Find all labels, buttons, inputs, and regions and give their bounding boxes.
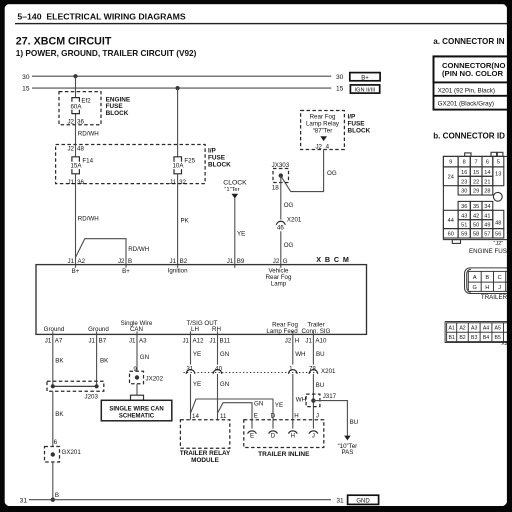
svg-text:A10: A10: [315, 337, 327, 344]
svg-text:J: J: [498, 285, 501, 291]
svg-text:ELECTRICAL WIRING DIAGRAMS: ELECTRICAL WIRING DIAGRAMS: [46, 12, 186, 22]
svg-text:J1: J1: [89, 337, 96, 344]
svg-text:TRAILER: TRAILER: [481, 294, 508, 301]
svg-text:22: 22: [473, 179, 479, 185]
splice JX303 box: [273, 169, 289, 183]
splice JX303 dot: [279, 173, 283, 177]
svg-text:16: 16: [461, 170, 467, 176]
svg-text:49: 49: [484, 222, 490, 228]
scan border right: [507, 0, 512, 512]
svg-text:D: D: [271, 413, 276, 420]
svg-text:BU: BU: [350, 419, 359, 426]
svg-text:B+: B+: [361, 75, 369, 81]
pin row 2: [458, 167, 470, 176]
svg-text:B+: B+: [122, 268, 130, 275]
svg-text:4: 4: [326, 143, 330, 150]
svg-text:B+: B+: [72, 268, 80, 275]
I/P fuse block box: [56, 145, 206, 184]
pigtail pin 1: [289, 370, 298, 374]
svg-text:GN: GN: [140, 354, 149, 361]
svg-text:“87”Ter: “87”Ter: [313, 127, 333, 134]
pin row 7: [458, 220, 470, 229]
strip pin labels: [449, 326, 501, 341]
svg-text:H: H: [291, 433, 295, 439]
svg-text:J2: J2: [273, 258, 280, 265]
svg-text:“1”Ter: “1”Ter: [224, 187, 239, 193]
T/SIG LH wire: [190, 334, 192, 364]
strip cell grid: [447, 323, 510, 342]
svg-text:A4: A4: [483, 326, 489, 332]
trailer sig wire: [312, 334, 314, 364]
wire JX303 down: [280, 176, 282, 220]
X201 connector strip: [445, 322, 510, 343]
svg-text:23: 23: [461, 179, 467, 185]
clock arrow: [232, 194, 239, 199]
svg-text:J2: J2: [285, 337, 292, 344]
svg-text:PAS: PAS: [341, 449, 353, 456]
svg-text:YE: YE: [237, 231, 245, 238]
svg-text:J1: J1: [170, 258, 177, 265]
svg-text:X201 (92 Pin, Black): X201 (92 Pin, Black): [438, 87, 495, 94]
svg-text:60: 60: [448, 232, 454, 238]
pigtail pin 31: [186, 370, 195, 374]
svg-text:J2: J2: [315, 143, 322, 150]
node on wire 31: [51, 498, 55, 502]
LH wire to module pin 14: [190, 374, 192, 420]
wire X201 to XBCM J2|G: [280, 231, 282, 264]
svg-text:H: H: [485, 285, 489, 291]
scan border top: [0, 0, 512, 4]
splice J203 dot B: [95, 384, 99, 388]
svg-text:Ground: Ground: [44, 326, 65, 333]
engine fuse block connector drawing: [443, 152, 509, 243]
svg-text:28: 28: [484, 189, 490, 195]
svg-text:J2: J2: [118, 258, 125, 265]
svg-text:B: B: [485, 275, 489, 281]
svg-text:8: 8: [463, 160, 466, 166]
svg-text:GX201: GX201: [62, 449, 82, 456]
splice J317 dot: [311, 398, 315, 402]
svg-text:OG: OG: [284, 202, 294, 209]
svg-text:6: 6: [54, 439, 58, 446]
svg-text:Ef2: Ef2: [81, 98, 91, 105]
svg-text:IGN II/III: IGN II/III: [355, 88, 376, 94]
svg-text:10A: 10A: [172, 163, 184, 170]
svg-text:Ground: Ground: [88, 326, 109, 333]
svg-text:RD/WH: RD/WH: [128, 246, 149, 253]
svg-text:B11: B11: [220, 337, 231, 344]
branch to trailer D: [191, 399, 274, 429]
svg-text:42: 42: [473, 213, 479, 219]
pin row 4: [458, 186, 470, 195]
socket J: [309, 431, 318, 434]
svg-text:35: 35: [473, 204, 479, 210]
IGN box: [350, 85, 379, 93]
svg-text:31: 31: [186, 365, 193, 372]
svg-text:A: A: [473, 275, 477, 281]
svg-text:BLOCK: BLOCK: [106, 110, 129, 117]
pin row 6: [458, 210, 470, 219]
pin row 8: [458, 229, 470, 238]
svg-text:Conn. SIG: Conn. SIG: [302, 328, 331, 335]
svg-text:31: 31: [336, 497, 344, 504]
svg-text:ENGINE FUSE: ENGINE FUSE: [469, 248, 511, 255]
svg-text:14: 14: [484, 170, 490, 176]
svg-text:J1: J1: [45, 337, 52, 344]
svg-text:BU: BU: [316, 351, 325, 358]
wire 15 to F25: [177, 88, 179, 157]
svg-text:RH: RH: [212, 326, 221, 333]
svg-text:F14: F14: [82, 157, 93, 164]
svg-text:5: 5: [497, 160, 500, 166]
ground wire to GX201: [52, 391, 54, 446]
svg-text:9: 9: [449, 160, 452, 166]
XBCM box: [36, 265, 367, 335]
svg-text:F25: F25: [184, 157, 195, 164]
svg-text:J1: J1: [305, 337, 312, 344]
svg-text:J1: J1: [209, 337, 216, 344]
relay arrow: [320, 136, 327, 141]
wire branch to J2|B: [76, 239, 127, 265]
svg-text:OG: OG: [284, 242, 294, 249]
cell 13: [493, 167, 504, 186]
svg-text:YE: YE: [275, 402, 283, 409]
svg-text:RD/WH: RD/WH: [78, 131, 99, 138]
trailer cell grid: [468, 271, 510, 291]
svg-text:X2: X2: [501, 341, 507, 347]
svg-text:G: G: [283, 258, 288, 265]
cell 60: [443, 229, 458, 238]
splice J203 dot A: [51, 384, 55, 388]
svg-text:XBCM: XBCM: [316, 255, 352, 264]
svg-text:J317: J317: [323, 393, 337, 400]
svg-text:A5: A5: [495, 326, 501, 332]
svg-text:SCHEMATIC: SCHEMATIC: [119, 414, 155, 420]
fuse F14: [72, 157, 80, 162]
header rule: [15, 23, 507, 24]
svg-text:J1: J1: [182, 337, 189, 344]
svg-text:LH: LH: [191, 326, 199, 333]
wire into F14: [75, 145, 77, 157]
svg-text:TRAILER INLINE: TRAILER INLINE: [258, 451, 310, 458]
strip shell: [445, 322, 510, 343]
scan border left: [0, 0, 5, 512]
svg-text:BLOCK: BLOCK: [208, 162, 231, 169]
pigtail pin 40: [213, 370, 222, 374]
wire from 30 to Ef2: [75, 76, 77, 97]
svg-text:Lamp Feed: Lamp Feed: [266, 328, 298, 335]
svg-text:G: G: [473, 285, 477, 291]
trailer pin letters: [473, 275, 502, 291]
splice JX202 dot: [135, 375, 139, 379]
svg-text:J2: J2: [67, 145, 74, 152]
svg-text:YE: YE: [193, 351, 201, 358]
splice J317 box: [306, 394, 320, 407]
svg-text:57: 57: [484, 232, 490, 238]
svg-text:A2: A2: [78, 258, 86, 265]
svg-text:48: 48: [77, 145, 84, 152]
svg-text:A12: A12: [193, 337, 205, 344]
socket H: [288, 431, 297, 434]
svg-text:43: 43: [461, 213, 467, 219]
svg-text:32: 32: [179, 179, 186, 186]
svg-text:29: 29: [473, 189, 479, 195]
svg-text:E: E: [250, 433, 254, 439]
svg-text:36: 36: [77, 119, 84, 126]
engine fuse block box: [59, 92, 101, 125]
svg-text:B3: B3: [471, 335, 477, 341]
cell 48: [493, 210, 504, 228]
svg-text:BU: BU: [316, 382, 325, 389]
svg-text:51: 51: [461, 222, 467, 228]
svg-text:WH: WH: [296, 396, 306, 403]
svg-text:13: 13: [495, 172, 501, 178]
svg-text:41: 41: [484, 213, 490, 219]
svg-text:J1: J1: [227, 258, 234, 265]
svg-text:OG: OG: [327, 170, 337, 177]
svg-text:GN: GN: [220, 381, 229, 388]
svg-text:RD/WH: RD/WH: [78, 216, 99, 223]
svg-text:50: 50: [473, 222, 479, 228]
mounting tab bottom: [452, 240, 460, 244]
branch to trailer E: [218, 403, 253, 429]
pigtail pin 78: [309, 370, 318, 374]
svg-text:E: E: [254, 413, 258, 420]
svg-text:JX303: JX303: [272, 162, 290, 169]
svg-text:Lamp: Lamp: [271, 281, 287, 288]
splice J203 bus: [53, 385, 97, 387]
mounting tab top: [465, 153, 471, 157]
svg-text:GX201 (Black/Gray): GX201 (Black/Gray): [438, 101, 494, 108]
svg-text:A3: A3: [139, 337, 147, 344]
svg-text:Ignition: Ignition: [168, 268, 189, 275]
single wire can schematic box: [101, 400, 172, 421]
svg-text:48: 48: [495, 220, 501, 226]
splice J203 box: [47, 381, 104, 391]
trailer inline box: [244, 420, 324, 448]
socket E: [248, 431, 257, 434]
svg-text:b. CONNECTOR ID: b. CONNECTOR ID: [433, 131, 505, 140]
cell 9: [443, 156, 458, 167]
wire GX201 to 31: [52, 462, 54, 500]
svg-text:A7: A7: [55, 337, 63, 344]
svg-text:A2: A2: [459, 326, 465, 332]
wire relay to JX303: [281, 150, 324, 192]
wire clock to XBCM J1|B9: [234, 198, 236, 264]
pin row 1: [458, 156, 470, 167]
svg-text:40: 40: [215, 365, 222, 372]
ground GX201 box: [45, 447, 60, 463]
WH wire to trailer H: [292, 374, 294, 429]
svg-text:J: J: [316, 413, 319, 420]
svg-text:A1: A1: [449, 326, 455, 332]
svg-text:B: B: [128, 258, 132, 265]
svg-text:5–140: 5–140: [17, 12, 41, 22]
svg-text:B1: B1: [449, 335, 455, 341]
svg-text:J1: J1: [67, 258, 74, 265]
svg-text:PK: PK: [181, 218, 190, 225]
svg-text:J1: J1: [67, 179, 74, 186]
svg-text:BLOCK: BLOCK: [348, 127, 371, 134]
fuse Ef2: [72, 98, 80, 102]
svg-text:YE: YE: [193, 381, 201, 388]
svg-text:D: D: [271, 433, 276, 439]
svg-text:58: 58: [473, 232, 479, 238]
svg-text:JX202: JX202: [146, 376, 164, 383]
wire Ef2 to J2|36: [75, 114, 77, 145]
node B+ feed junction: [73, 74, 77, 78]
svg-text:46: 46: [277, 224, 284, 231]
svg-text:BK: BK: [100, 358, 109, 365]
svg-text:X201: X201: [321, 368, 336, 375]
svg-text:(PIN NO. COLOR: (PIN NO. COLOR: [442, 69, 504, 78]
PAS arrow: [344, 436, 351, 441]
svg-text:MODULE: MODULE: [191, 457, 219, 464]
svg-text:J1: J1: [129, 337, 136, 344]
svg-text:15: 15: [336, 86, 344, 93]
connector pin numbers: [448, 160, 502, 238]
connector table outer: [434, 56, 511, 109]
svg-text:56: 56: [495, 232, 501, 238]
svg-text:BK: BK: [55, 411, 64, 418]
BU wire to J317: [312, 374, 314, 429]
trailer relay module box: [180, 420, 229, 449]
svg-text:59: 59: [461, 232, 467, 238]
GND box: [348, 495, 379, 504]
svg-text:B: B: [55, 492, 59, 499]
svg-text:BK: BK: [55, 358, 64, 365]
svg-text:B7: B7: [99, 337, 107, 344]
svg-text:“J2”: “J2”: [493, 241, 503, 247]
rear fog feed wire: [292, 334, 294, 364]
splice JX202 box: [130, 371, 144, 384]
svg-text:CLOCK: CLOCK: [223, 179, 247, 186]
svg-text:J203: J203: [85, 393, 99, 400]
svg-text:B4: B4: [483, 335, 489, 341]
svg-text:1) POWER, GROUND, TRAILER CIRC: 1) POWER, GROUND, TRAILER CIRCUIT (V92): [16, 49, 197, 58]
ground wire B7: [96, 334, 98, 386]
svg-text:WH: WH: [295, 351, 305, 358]
T/SIG RH wire: [217, 334, 219, 364]
svg-text:B2: B2: [459, 335, 465, 341]
mounting lugs top right: [491, 152, 497, 156]
connector X201 dotted line: [184, 372, 319, 374]
svg-text:7: 7: [475, 160, 478, 166]
svg-text:21: 21: [484, 179, 490, 185]
B+ box: [350, 73, 380, 81]
svg-text:a. CONNECTOR IN: a. CONNECTOR IN: [433, 37, 505, 46]
wire 30: [32, 75, 331, 77]
trailer shell: [465, 268, 511, 294]
svg-text:30: 30: [336, 74, 344, 81]
svg-text:SINGLE WIRE CAN: SINGLE WIRE CAN: [109, 407, 163, 413]
svg-text:J1: J1: [170, 179, 177, 186]
svg-text:GN: GN: [254, 401, 263, 408]
svg-text:J: J: [312, 433, 315, 439]
svg-text:B2: B2: [180, 258, 188, 265]
svg-text:A3: A3: [471, 326, 477, 332]
svg-text:H: H: [295, 337, 299, 344]
pin row 5: [458, 201, 470, 210]
fuse F25: [174, 157, 182, 162]
connector X201 pigtail: [276, 221, 285, 225]
scan border bottom: [0, 506, 512, 512]
svg-text:34: 34: [484, 204, 490, 210]
svg-text:15A: 15A: [70, 163, 82, 170]
node F25 feed junction: [176, 86, 180, 90]
svg-text:X201: X201: [287, 217, 302, 224]
svg-text:6: 6: [486, 160, 489, 166]
pin row 3: [458, 176, 470, 185]
svg-text:15: 15: [473, 170, 479, 176]
ground wire A7: [52, 334, 54, 386]
ground GX201 dot: [51, 452, 55, 456]
connector table header: [434, 56, 511, 82]
wire 15: [32, 87, 331, 89]
svg-text:30: 30: [22, 74, 30, 81]
svg-text:B5: B5: [495, 335, 501, 341]
svg-text:B9: B9: [237, 258, 245, 265]
connector outer shell: [443, 156, 509, 239]
svg-text:36: 36: [461, 204, 467, 210]
bolt circle: [493, 192, 502, 201]
svg-text:GND: GND: [356, 498, 370, 504]
svg-text:44: 44: [448, 218, 454, 224]
wire JX202 down: [136, 384, 138, 395]
svg-text:15: 15: [22, 86, 30, 93]
wire F14 to XBCM J1|A2: [75, 174, 77, 265]
svg-text:C: C: [498, 275, 502, 281]
connector tab: [131, 395, 144, 400]
svg-text:J2: J2: [67, 119, 74, 126]
svg-text:18: 18: [272, 184, 279, 191]
svg-text:1: 1: [289, 365, 293, 372]
branch J317 to PAS: [313, 401, 347, 436]
CAN wire: [136, 334, 138, 371]
rear fog lamp relay box: [301, 111, 345, 150]
cell 44: [443, 210, 458, 228]
RH wire to module pin 11: [217, 374, 219, 420]
socket D: [269, 431, 278, 434]
trailer connector drawing: [465, 268, 511, 294]
svg-text:30: 30: [461, 189, 467, 195]
cell 24: [443, 167, 458, 186]
wire 31: [29, 499, 331, 501]
svg-text:36: 36: [77, 179, 84, 186]
svg-text:H: H: [294, 413, 298, 420]
svg-text:78: 78: [309, 365, 316, 372]
svg-text:27. XBCM CIRCUIT: 27. XBCM CIRCUIT: [16, 36, 112, 48]
svg-text:GN: GN: [220, 351, 229, 358]
svg-text:24: 24: [448, 175, 454, 181]
wire F25 to XBCM J1|B2: [177, 174, 179, 265]
svg-text:31: 31: [20, 497, 28, 504]
